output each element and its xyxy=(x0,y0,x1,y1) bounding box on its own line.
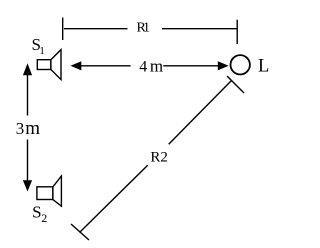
svg-text:1: 1 xyxy=(143,21,150,36)
svg-text:S: S xyxy=(32,202,41,221)
svg-text:3: 3 xyxy=(16,119,25,138)
svg-text:m: m xyxy=(150,56,163,75)
svg-text:1: 1 xyxy=(39,45,45,57)
svg-text:2: 2 xyxy=(41,211,47,225)
svg-text:L: L xyxy=(258,56,269,76)
svg-text:R2: R2 xyxy=(150,150,168,166)
svg-text:4: 4 xyxy=(139,59,147,76)
svg-text:m: m xyxy=(25,118,40,139)
